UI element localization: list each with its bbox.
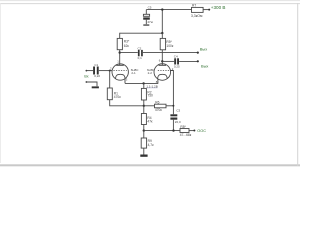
node B+ rail junction <box>161 8 163 10</box>
svg-text:Вых: Вых <box>201 64 208 69</box>
ground under C5 <box>143 24 149 26</box>
capacitor C3 plus plate <box>170 114 177 116</box>
node +300V terminal <box>208 9 210 11</box>
resistor R6 <box>155 104 167 108</box>
wire anode2 to C4 <box>162 60 174 62</box>
wire R5 top lead <box>161 33 163 39</box>
wire C3 bottom lead <box>172 120 174 131</box>
wire R6 right lead <box>166 105 173 107</box>
wire R5 bottom to tube2 anode <box>161 50 163 65</box>
svg-text:62к: 62к <box>124 44 130 48</box>
wire R3 top lead <box>119 33 121 39</box>
node input ground terminal <box>86 81 88 83</box>
wire R3 bottom to tube1 anode <box>119 50 121 65</box>
wire R9 top lead <box>143 131 145 138</box>
page bottom border <box>0 164 300 166</box>
wire bias to R6 <box>144 105 155 107</box>
tube V2 grid <box>158 70 171 72</box>
svg-text:С3: С3 <box>176 109 180 113</box>
svg-text:4,7к: 4,7к <box>148 143 155 147</box>
wire R2 top lead <box>143 83 145 88</box>
node cathode junction <box>142 82 144 84</box>
wire R8 right lead <box>189 130 194 132</box>
svg-text:0,25: 0,25 <box>174 64 180 68</box>
wire V2 grid stub and drop <box>171 71 174 115</box>
capacitor C5 bottom lead <box>145 20 147 25</box>
resistor R5 <box>160 38 165 49</box>
tube V1 grid <box>113 70 126 72</box>
svg-text:0,22: 0,22 <box>94 74 100 78</box>
capacitor C5 top lead <box>145 10 147 15</box>
svg-text:6: 6 <box>159 58 161 62</box>
svg-text:ООС: ООС <box>197 129 206 133</box>
node OOC terminal <box>193 130 195 132</box>
node feedback node <box>143 129 145 131</box>
tube V1 envelope <box>112 64 128 80</box>
svg-text:47...68к: 47...68к <box>180 133 192 137</box>
tube V1 anode bar <box>116 64 124 66</box>
capacitor C2 <box>138 50 140 56</box>
svg-text:R8*: R8* <box>180 125 186 129</box>
wire R4 bottom lead <box>143 125 145 131</box>
tube V2 anode bar <box>159 64 167 66</box>
node Vyh2 terminal <box>197 60 199 62</box>
capacitor C4 <box>174 58 176 64</box>
wire anode supply rail y=33 <box>120 32 163 34</box>
wire R9 bottom lead <box>143 148 145 154</box>
svg-text:100к: 100к <box>166 44 173 48</box>
resistor R3 <box>117 38 122 49</box>
wire R7 right lead <box>203 9 209 11</box>
page left border <box>0 3 2 163</box>
wire input to C1 <box>86 70 93 72</box>
svg-text:47м: 47м <box>147 20 152 24</box>
tube V1 cathode <box>116 74 126 79</box>
svg-text:С4: С4 <box>174 55 178 59</box>
tube V2 cathode <box>158 74 168 79</box>
wire anode1 to C2 <box>120 52 138 54</box>
resistor R1 <box>107 88 112 100</box>
svg-text:0,1: 0,1 <box>138 56 143 60</box>
resistor R7 <box>192 7 204 12</box>
node tube2 anode junction <box>161 60 163 62</box>
wire feedback rail <box>144 130 180 132</box>
svg-text:С2: С2 <box>138 46 142 50</box>
ground under R9 <box>140 155 147 157</box>
svg-text:2-1: 2-1 <box>131 71 136 75</box>
svg-text:С1: С1 <box>94 63 98 67</box>
svg-text:R6: R6 <box>155 101 159 105</box>
resistor R2 <box>141 88 146 100</box>
node tube1 anode junction <box>119 51 121 53</box>
wire C1 to tube1 grid <box>99 70 112 72</box>
wire V1 cathode lead <box>124 79 126 84</box>
ground input <box>92 86 99 88</box>
wire C2 to Vyh1 <box>143 52 198 54</box>
capacitor C5 plus plate <box>143 14 149 16</box>
node grid2 net joins R6 <box>172 105 174 107</box>
svg-text:20,0: 20,0 <box>175 120 181 124</box>
capacitor C3 minus plate <box>170 118 177 120</box>
svg-text:2: 2 <box>110 66 112 70</box>
svg-text:+300 В: +300 В <box>211 5 226 10</box>
svg-text:С5: С5 <box>148 6 152 10</box>
wire R1 top lead <box>109 71 111 88</box>
resistor R4 <box>141 114 146 125</box>
wire C4 to Vyh2 <box>179 60 198 62</box>
capacitor C5 minus plate <box>143 17 150 19</box>
svg-text:47к: 47к <box>147 120 153 124</box>
node grid-R1 junction <box>109 70 111 72</box>
capacitor C1 <box>93 67 95 75</box>
resistor R9 <box>141 138 146 148</box>
resistor R8 <box>180 129 189 133</box>
svg-text:470к: 470к <box>114 95 121 99</box>
svg-text:Вых: Вых <box>200 47 207 52</box>
svg-text:3: 3 <box>126 78 128 82</box>
wire R4 top lead <box>143 106 145 114</box>
node input terminal <box>86 70 88 72</box>
wire R2 bottom lead <box>143 100 145 106</box>
node Vyh1 terminal <box>197 52 199 54</box>
svg-text:750: 750 <box>147 94 153 98</box>
wire B+ vertical drop <box>161 10 163 33</box>
svg-text:R7: R7 <box>192 4 196 8</box>
tube V2 envelope <box>154 64 171 81</box>
node bias node <box>143 105 145 107</box>
svg-text:1: 1 <box>117 59 119 63</box>
page right border <box>297 3 299 166</box>
node C3 joins feedback rail <box>172 129 174 131</box>
page top border <box>0 3 300 5</box>
wire cathode rail <box>125 82 158 84</box>
svg-text:3,3кОм: 3,3кОм <box>191 14 203 18</box>
wire R1 bottom to bias node <box>110 100 144 106</box>
svg-text:470к: 470к <box>155 108 162 112</box>
wire B+ top rail <box>146 9 191 11</box>
wire input ground L <box>86 82 97 86</box>
wire V2 cathode lead <box>157 79 159 84</box>
svg-text:2-2: 2-2 <box>148 71 153 75</box>
node rail-R5 junction <box>161 32 163 34</box>
svg-text:Вх: Вх <box>84 74 88 78</box>
